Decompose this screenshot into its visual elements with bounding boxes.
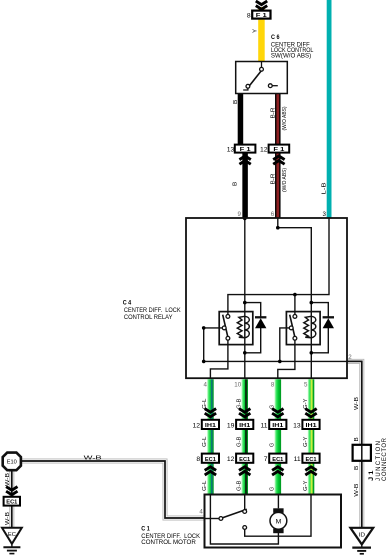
svg-text:19: 19	[227, 422, 235, 429]
svg-text:G-L: G-L	[202, 480, 208, 491]
svg-text:CONNECTOR: CONNECTOR	[382, 437, 388, 481]
svg-text:C 1: C 1	[141, 526, 150, 533]
svg-text:6: 6	[271, 211, 275, 218]
svg-text:F 1: F 1	[240, 147, 251, 153]
svg-text:B: B	[233, 182, 239, 186]
svg-text:13: 13	[293, 422, 301, 429]
svg-text:G-B: G-B	[237, 436, 243, 447]
svg-text:G-Y: G-Y	[303, 398, 309, 409]
svg-text:7: 7	[264, 456, 268, 463]
svg-text:IH1: IH1	[272, 423, 283, 429]
svg-text:8: 8	[247, 12, 251, 19]
svg-text:CONTROL MOTOR: CONTROL MOTOR	[141, 539, 196, 546]
svg-text:JUNCTION: JUNCTION	[376, 441, 382, 481]
svg-text:M: M	[276, 518, 282, 525]
svg-text:W-B: W-B	[5, 473, 11, 486]
svg-text:IH1: IH1	[306, 423, 317, 429]
svg-text:G-B: G-B	[237, 398, 243, 409]
svg-text:EC1: EC1	[272, 457, 283, 463]
svg-text:12: 12	[260, 146, 268, 153]
svg-text:J 1: J 1	[369, 470, 375, 481]
svg-text:(W/O ABS): (W/O ABS)	[282, 168, 288, 192]
svg-text:12: 12	[193, 422, 201, 429]
svg-text:5: 5	[304, 382, 308, 389]
svg-text:F 1: F 1	[273, 147, 284, 153]
svg-text:8: 8	[271, 382, 275, 389]
svg-text:C 4: C 4	[123, 300, 132, 307]
svg-text:Y: Y	[253, 29, 259, 33]
svg-text:G: G	[270, 442, 276, 447]
svg-text:11: 11	[260, 422, 267, 429]
svg-text:G-B: G-B	[237, 480, 243, 491]
svg-text:13: 13	[227, 146, 235, 153]
svg-text:B-R: B-R	[271, 108, 277, 119]
svg-text:IH1: IH1	[205, 423, 216, 429]
svg-text:F 1: F 1	[256, 13, 267, 19]
svg-text:EC: EC	[8, 532, 16, 538]
svg-text:G-Y: G-Y	[303, 436, 309, 447]
svg-text:EC1: EC1	[239, 457, 250, 463]
svg-text:CONTROL RELAY: CONTROL RELAY	[124, 314, 173, 321]
svg-text:E10: E10	[7, 460, 17, 466]
svg-text:SW(W/O ABS): SW(W/O ABS)	[271, 52, 311, 59]
svg-text:G-L: G-L	[202, 436, 208, 447]
svg-text:B: B	[233, 100, 239, 104]
svg-text:W-B: W-B	[5, 512, 11, 525]
svg-text:W-B: W-B	[354, 397, 360, 410]
svg-text:4: 4	[199, 508, 203, 515]
svg-text:9: 9	[238, 211, 242, 218]
svg-text:B-R: B-R	[271, 174, 277, 185]
svg-text:(W/O ABS): (W/O ABS)	[282, 106, 288, 130]
svg-text:3: 3	[322, 211, 326, 218]
svg-text:2: 2	[348, 354, 352, 361]
svg-text:EC1: EC1	[6, 500, 17, 506]
svg-text:EC1: EC1	[205, 457, 216, 463]
svg-text:W-B: W-B	[354, 483, 360, 496]
svg-text:B: B	[354, 437, 360, 441]
svg-text:G: G	[270, 486, 276, 491]
svg-text:12: 12	[227, 456, 235, 463]
svg-text:G-Y: G-Y	[303, 480, 309, 491]
svg-text:B: B	[354, 466, 360, 470]
svg-text:CENTER DIFF. LOCK: CENTER DIFF. LOCK	[124, 307, 181, 314]
svg-text:8: 8	[196, 456, 200, 463]
svg-text:IH1: IH1	[239, 423, 250, 429]
svg-text:ID: ID	[359, 532, 366, 538]
svg-text:EC1: EC1	[306, 457, 317, 463]
svg-text:W-B: W-B	[84, 456, 102, 462]
svg-text:C 6: C 6	[271, 34, 280, 41]
svg-text:G: G	[270, 404, 276, 409]
svg-text:11: 11	[294, 456, 301, 463]
svg-text:10: 10	[234, 382, 241, 389]
svg-text:G-L: G-L	[202, 398, 208, 409]
svg-text:L-B: L-B	[322, 182, 328, 194]
svg-text:4: 4	[203, 382, 207, 389]
